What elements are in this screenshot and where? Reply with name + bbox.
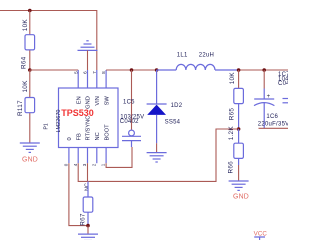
wire EN — [30, 69, 78, 71]
ground below D2 — [147, 153, 167, 162]
wire GND pin stem — [87, 50, 89, 70]
wire FB path — [78, 129, 238, 181]
diode D2 — [156, 70, 158, 104]
wire D2 anode stem — [156, 143, 158, 152]
wire C5 top — [131, 70, 133, 130]
pin 0 pad stub — [68, 148, 70, 164]
pin 1 BOOT stub — [105, 148, 107, 164]
svg-text:5: 5 — [73, 71, 78, 74]
node FB junction — [237, 127, 241, 131]
svg-text:10K: 10K — [229, 72, 236, 85]
pin 8 SW stub — [105, 70, 107, 88]
wire C6 bottom — [259, 127, 289, 129]
wire SW rail — [106, 69, 157, 71]
capacitor C6 — [263, 70, 265, 89]
pin 5 EN stub — [77, 70, 79, 88]
svg-text:BOOT: BOOT — [104, 124, 110, 141]
power flag VCC — [254, 237, 265, 240]
pin 4 FB stub — [77, 148, 79, 164]
svg-text:VIN: VIN — [95, 96, 101, 105]
svg-text:R66: R66 — [227, 161, 234, 174]
resistor R64 — [25, 35, 35, 50]
svg-text:1C6: 1C6 — [266, 114, 278, 120]
capacitor C7 partial — [283, 98, 289, 100]
pin 3 RT/SYNC stub — [87, 148, 89, 164]
svg-text:1.2K: 1.2K — [228, 126, 235, 141]
svg-text:C0402: C0402 — [120, 119, 139, 125]
svg-text:FB: FB — [76, 133, 82, 140]
svg-text:R67: R67 — [79, 213, 86, 226]
svg-text:SW: SW — [104, 96, 110, 106]
wire output rail — [239, 69, 288, 71]
ground inverted above pin 6 — [78, 41, 98, 51]
svg-text:GND: GND — [22, 157, 38, 164]
svg-text:R64: R64 — [21, 56, 28, 69]
svg-text:1: 1 — [101, 163, 106, 166]
node VIN junction — [28, 9, 32, 13]
svg-text:+: + — [267, 94, 271, 100]
ground below R66 — [229, 181, 249, 190]
pin 7 VIN stub — [96, 70, 98, 88]
wire R64 column — [29, 11, 31, 71]
svg-text:0: 0 — [64, 163, 69, 166]
node C6 tap — [262, 68, 266, 72]
svg-text:6: 6 — [83, 71, 88, 74]
ic P1 LM22670 (TPS530) body — [59, 88, 119, 148]
svg-text:2: 2 — [91, 163, 96, 166]
node EN junction — [28, 68, 32, 72]
svg-text:NC: NC — [84, 183, 90, 191]
wire RT/SYNC down — [87, 163, 89, 181]
svg-text:10K: 10K — [22, 80, 29, 93]
svg-text:0: 0 — [67, 137, 73, 140]
inductor L1 — [157, 64, 239, 70]
svg-text:SS54: SS54 — [165, 120, 181, 126]
wire R117 column — [29, 70, 31, 143]
svg-text:GND: GND — [86, 96, 92, 109]
svg-text:P1: P1 — [44, 123, 50, 129]
resistor R66 — [238, 129, 240, 143]
pin 2 NC stub — [96, 148, 98, 164]
svg-text:GND: GND — [233, 194, 249, 201]
svg-text:10K: 10K — [22, 19, 29, 32]
capacitor C5 — [129, 130, 135, 136]
svg-text:1L1: 1L1 — [177, 52, 188, 58]
pin 6 GND stub — [87, 70, 89, 88]
svg-text:VCC: VCC — [254, 231, 268, 238]
wire ground stem — [87, 226, 89, 235]
wire pin0 to ground — [69, 163, 88, 225]
wire BOOT to C5 — [106, 147, 132, 167]
svg-text:EN: EN — [76, 96, 82, 104]
svg-text:1C5: 1C5 — [123, 99, 135, 105]
svg-text:R117: R117 — [17, 100, 24, 116]
resistor R117 — [25, 98, 35, 113]
ground below R67 — [78, 234, 98, 240]
svg-text:220uF/35V: 220uF/35V — [258, 122, 288, 128]
svg-text:C04: C04 — [278, 81, 288, 87]
node C5 tap — [130, 68, 134, 72]
svg-text:R65: R65 — [228, 108, 235, 121]
svg-text:8: 8 — [101, 71, 106, 74]
node D2 tap — [155, 68, 159, 72]
svg-text:NC: NC — [95, 132, 101, 140]
node R67 ground junction — [86, 224, 90, 228]
svg-text:7: 7 — [92, 71, 97, 74]
resistor R67 — [87, 181, 89, 197]
resistor R65 — [238, 70, 240, 88]
node R65 tap — [237, 68, 241, 72]
svg-text:LM22670: LM22670 — [56, 110, 62, 133]
svg-text:RT/SYNC: RT/SYNC — [86, 116, 92, 141]
wire VIN top rail — [0, 11, 97, 71]
svg-text:4: 4 — [73, 163, 78, 166]
svg-text:22uH: 22uH — [199, 52, 214, 58]
svg-text:3: 3 — [82, 163, 87, 166]
ground GND left — [20, 143, 40, 152]
svg-text:1D2: 1D2 — [171, 103, 183, 109]
